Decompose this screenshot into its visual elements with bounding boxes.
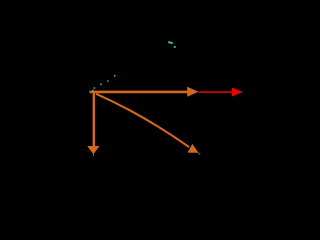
vector arrow C (diagonal, orange): head (188, 144, 199, 153)
dotted trajectory fragment: dot 4 (107, 80, 109, 82)
vector arrow C: small tail wisp past tip (198, 153, 200, 155)
vector arrow A (horizontal, orange): head (187, 87, 198, 97)
dotted trajectory fragment: dash near apex (169, 41, 172, 44)
vector arrow C (diagonal, orange): shaft (96, 94, 189, 147)
dotted trajectory fragment: dot 2 (94, 87, 96, 89)
vector arrow B (vertical, orange): head (87, 146, 99, 154)
vector arrow B (vertical, orange): shaft (93, 93, 95, 147)
dotted trajectory fragment: dot 5 (114, 75, 116, 77)
dotted trajectory fragment: dot 1 (near origin) (92, 90, 94, 92)
dotted trajectory fragment: dot after apex (174, 46, 176, 48)
vector arrow B: small tail wisp below tip (92, 154, 94, 156)
dotted trajectory fragment: dot 3 (100, 83, 102, 85)
vector arrow A (horizontal, orange): shaft (89, 91, 187, 94)
vector arrow R (red extension): head (232, 88, 243, 97)
vector arrow R (red extension): shaft (199, 91, 233, 93)
